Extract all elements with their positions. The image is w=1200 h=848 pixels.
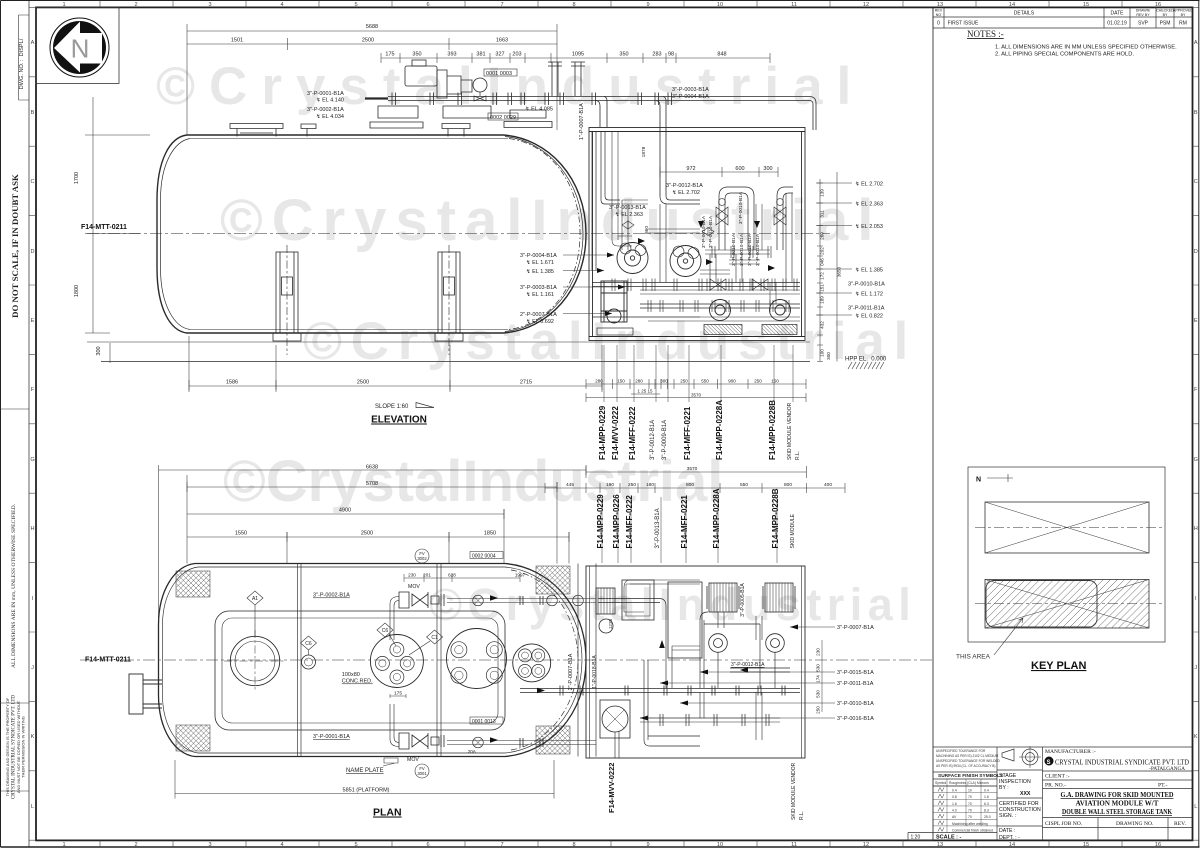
svg-text:3"-P-0012-B1A: 3"-P-0012-B1A xyxy=(666,183,703,189)
svg-text:4.0: 4.0 xyxy=(952,808,957,812)
svg-text:-PATALGANGA: -PATALGANGA xyxy=(1149,766,1185,772)
svg-text:F14-MPP-0226: F14-MPP-0226 xyxy=(612,494,621,549)
svg-text:AS PER IS) 9934 (CL. OF ACCURA: AS PER IS) 9934 (CL. OF ACCURACY B) xyxy=(936,764,995,768)
svg-text:DO NOT SCALE, IF IN DOUBT ASK: DO NOT SCALE, IF IN DOUBT ASK xyxy=(10,174,20,318)
svg-text:SVP: SVP xyxy=(1138,21,1149,27)
svg-text:3"-P-0010-B1A: 3"-P-0010-B1A xyxy=(738,191,744,224)
svg-text:0002 0029: 0002 0029 xyxy=(490,115,516,121)
svg-text:1: 1 xyxy=(62,2,65,8)
svg-text:600: 600 xyxy=(735,166,744,172)
svg-text:550: 550 xyxy=(740,482,748,488)
revision table xyxy=(933,7,1193,840)
svg-text:10: 10 xyxy=(717,2,723,8)
svg-text:15: 15 xyxy=(1083,842,1089,848)
svg-text:3"-P-0004-B1A: 3"-P-0004-B1A xyxy=(520,253,557,259)
svg-text:3"-P-0012-B1A: 3"-P-0012-B1A xyxy=(650,420,656,460)
svg-text:G: G xyxy=(1194,457,1198,463)
svg-text:300: 300 xyxy=(763,166,772,172)
svg-text:1550: 1550 xyxy=(235,531,247,537)
svg-text:1800: 1800 xyxy=(74,285,80,297)
svg-text:400: 400 xyxy=(824,482,832,488)
svg-text:3"-P-0010-B1A: 3"-P-0010-B1A xyxy=(708,215,714,248)
svg-text:L: L xyxy=(31,804,34,810)
svg-text:DATE :: DATE : xyxy=(999,828,1015,834)
svg-text:2500: 2500 xyxy=(361,531,373,537)
extra skid piping detail xyxy=(622,193,792,282)
svg-text:J: J xyxy=(31,665,34,671)
svg-text:N: N xyxy=(976,477,981,484)
svg-text:2: 2 xyxy=(134,842,137,848)
manhole cluster 3 xyxy=(513,644,551,682)
svg-text:203: 203 xyxy=(512,52,521,58)
svg-text:A: A xyxy=(31,40,35,46)
svg-text:SCALE : -: SCALE : - xyxy=(936,835,962,841)
svg-text:3"-P-0010-B1A: 3"-P-0010-B1A xyxy=(739,233,745,266)
svg-text:3"-P-0010-B1A: 3"-P-0010-B1A xyxy=(755,233,761,266)
svg-text:C6: C6 xyxy=(305,641,312,647)
svg-text:327: 327 xyxy=(495,52,504,58)
svg-text:FIRST ISSUE: FIRST ISSUE xyxy=(948,21,979,27)
svg-text:3"-P-0001-B1A: 3"-P-0001-B1A xyxy=(313,734,350,740)
svg-text:16: 16 xyxy=(1155,2,1161,8)
svg-text:230: 230 xyxy=(408,573,416,578)
svg-text:REV BY: REV BY xyxy=(1136,13,1150,17)
svg-text:DWG. NO. : DISPL/: DWG. NO. : DISPL/ xyxy=(19,38,25,89)
svg-text:848: 848 xyxy=(717,52,726,58)
PLAN: tank top view xyxy=(80,564,935,757)
svg-text:70: 70 xyxy=(968,815,972,819)
skid module frame (plan) xyxy=(586,566,805,758)
svg-text:2"-P-0007-B1A: 2"-P-0007-B1A xyxy=(520,312,557,318)
svg-text:1238: 1238 xyxy=(608,618,613,629)
svg-text:↯ EL 0.822: ↯ EL 0.822 xyxy=(855,313,883,320)
svg-text:3"-P-0007-B1A: 3"-P-0007-B1A xyxy=(837,625,874,631)
svg-text:151: 151 xyxy=(820,284,825,292)
svg-text:20A: 20A xyxy=(468,749,477,754)
svg-text:300: 300 xyxy=(826,352,831,360)
svg-text:260: 260 xyxy=(820,232,825,240)
svg-text:↯ EL 2.363: ↯ EL 2.363 xyxy=(855,201,883,208)
svg-text:2"-P-0007-B1A: 2"-P-0007-B1A xyxy=(568,653,574,690)
svg-text:SKID MODULE VENDOR: SKID MODULE VENDOR xyxy=(787,402,793,460)
svg-text:5: 5 xyxy=(354,842,357,848)
svg-text:70: 70 xyxy=(968,795,972,799)
svg-text:2500: 2500 xyxy=(357,380,369,386)
svg-text:250: 250 xyxy=(680,379,688,384)
svg-text:2. ALL PIPING SPECIAL COMPONEN: 2. ALL PIPING SPECIAL COMPONENTS ARE HOL… xyxy=(995,52,1134,58)
manhole cluster C6/C1 xyxy=(370,635,423,688)
svg-text:3"-P-0003-B1A: 3"-P-0003-B1A xyxy=(520,285,557,291)
svg-text:SURFACE FINISH SYMBOLS: SURFACE FINISH SYMBOLS xyxy=(938,773,1004,779)
svg-text:DETAILS: DETAILS xyxy=(1014,11,1035,17)
svg-text:550: 550 xyxy=(701,379,709,384)
svg-text:3"-P-0001-B1A: 3"-P-0001-B1A xyxy=(307,91,344,97)
svg-text:8: 8 xyxy=(572,2,575,8)
svg-text:3"-P-0010-B1A: 3"-P-0010-B1A xyxy=(837,701,874,707)
svg-text:H: H xyxy=(30,526,34,532)
svg-text:F14-MVV-0222: F14-MVV-0222 xyxy=(607,763,616,813)
svg-text:3650: 3650 xyxy=(837,266,842,277)
svg-text:12: 12 xyxy=(863,2,869,8)
svg-text:F: F xyxy=(31,387,35,393)
right side EL labels xyxy=(816,172,852,362)
svg-text:139: 139 xyxy=(820,189,825,197)
svg-text:UNSPECIFIED TOLERANCE FOR WELD: UNSPECIFIED TOLERANCE FOR WELDED xyxy=(936,759,1001,763)
svg-text:5688: 5688 xyxy=(366,24,378,30)
svg-text:4: 4 xyxy=(280,2,283,8)
svg-text:3001: 3001 xyxy=(417,771,427,776)
svg-text:3"-P-0010-B1A: 3"-P-0010-B1A xyxy=(848,282,885,288)
svg-text:ALL DIMENSIONS ARE IN mm, UNLE: ALL DIMENSIONS ARE IN mm, UNLESS OTHERWI… xyxy=(11,503,17,668)
svg-text:1501: 1501 xyxy=(231,38,243,44)
svg-text:201: 201 xyxy=(423,573,431,578)
nozzle C6 small xyxy=(302,655,316,669)
svg-text:XXX: XXX xyxy=(1020,791,1031,797)
svg-text:100x80: 100x80 xyxy=(342,672,360,678)
svg-text:530: 530 xyxy=(816,690,821,698)
svg-text:250: 250 xyxy=(816,706,821,714)
svg-text:1878: 1878 xyxy=(641,146,647,157)
svg-text:F14-MTT-0211: F14-MTT-0211 xyxy=(81,224,127,231)
svg-text:C1: C1 xyxy=(431,635,438,641)
svg-text:CLIENT :-: CLIENT :- xyxy=(1045,774,1070,780)
svg-text:H: H xyxy=(1194,526,1198,532)
svg-text:DEPT. : -: DEPT. : - xyxy=(999,835,1020,841)
svg-text:KEY PLAN: KEY PLAN xyxy=(1031,660,1086,672)
svg-text:©CrystalIndustrial: ©CrystalIndustrial xyxy=(303,312,917,371)
svg-text:APPROVED: APPROVED xyxy=(1173,9,1193,13)
svg-text:283: 283 xyxy=(652,52,661,58)
svg-text:AVIATION MODULE W/T: AVIATION MODULE W/T xyxy=(1076,800,1159,808)
svg-text:9: 9 xyxy=(646,842,649,848)
svg-text:J: J xyxy=(1194,665,1197,671)
svg-text:CHECKED: CHECKED xyxy=(1156,9,1174,13)
svg-text:350: 350 xyxy=(412,52,421,58)
svg-text:ELEVATION: ELEVATION xyxy=(371,415,427,426)
svg-text:E: E xyxy=(1194,318,1198,324)
svg-text:E: E xyxy=(31,318,35,324)
svg-text:D: D xyxy=(30,249,34,255)
manhole cluster 2 xyxy=(447,629,507,689)
svg-text:175: 175 xyxy=(394,691,402,697)
svg-text:RM: RM xyxy=(1179,21,1187,27)
svg-text:972: 972 xyxy=(686,166,695,172)
svg-text:14: 14 xyxy=(1009,842,1015,848)
title block xyxy=(908,747,1193,840)
svg-text:3"-P-0010-B1A: 3"-P-0010-B1A xyxy=(731,233,737,266)
svg-text:16: 16 xyxy=(1155,842,1161,848)
svg-text:F14-MVV-0222: F14-MVV-0222 xyxy=(611,406,620,460)
svg-text:7: 7 xyxy=(500,2,503,8)
vertical dims 1700/1800 xyxy=(85,97,150,363)
svg-text:AV: AV xyxy=(952,815,957,819)
svg-text:Commercial finish obtained: Commercial finish obtained xyxy=(952,828,993,832)
svg-text:13: 13 xyxy=(937,842,943,848)
svg-text:F14-MTT-0211: F14-MTT-0211 xyxy=(85,657,131,664)
svg-text:172: 172 xyxy=(820,272,825,280)
svg-text:3"-P-0011-B1A: 3"-P-0011-B1A xyxy=(848,306,885,312)
svg-text:DATE: DATE xyxy=(1111,11,1125,17)
left nozzle of tank xyxy=(129,674,162,714)
svg-text:1"-P-0007-B1A: 1"-P-0007-B1A xyxy=(579,103,585,140)
svg-text:800: 800 xyxy=(686,482,694,488)
svg-text:G: G xyxy=(30,457,34,463)
svg-text:3: 3 xyxy=(208,842,211,848)
svg-text:REV.: REV. xyxy=(1174,821,1186,827)
svg-text:DOUBLE WALL STEEL STORAGE TANK: DOUBLE WALL STEEL STORAGE TANK xyxy=(1062,808,1172,816)
svg-text:3"-P-0005-B1A: 3"-P-0005-B1A xyxy=(740,583,746,617)
svg-text:3"-P-0010-B1A: 3"-P-0010-B1A xyxy=(747,233,753,266)
svg-text:01.02.19: 01.02.19 xyxy=(1107,21,1127,27)
svg-text:THEIR PERMISSION IN WRITING: THEIR PERMISSION IN WRITING xyxy=(21,716,26,778)
svg-text:280: 280 xyxy=(595,379,603,384)
ELEVATION: storage tank F14-MTT-0211 xyxy=(87,135,830,333)
svg-text:NOTES :-: NOTES :- xyxy=(967,29,1004,39)
saddle supports xyxy=(273,245,463,355)
KEY PLAN xyxy=(968,467,1165,642)
svg-text:↯ EL 4.140: ↯ EL 4.140 xyxy=(316,97,344,104)
svg-text:1.6: 1.6 xyxy=(984,795,989,799)
svg-text:3"-P-0012-B1A: 3"-P-0012-B1A xyxy=(731,662,765,668)
svg-text:PT.-: PT.- xyxy=(1158,783,1168,789)
svg-text:10: 10 xyxy=(717,842,723,848)
svg-text:8: 8 xyxy=(572,842,575,848)
svg-text:1586: 1586 xyxy=(226,380,238,386)
plan top dimension chains xyxy=(159,465,587,799)
svg-text:4: 4 xyxy=(280,842,283,848)
svg-text:10: 10 xyxy=(968,789,972,793)
svg-text:G.A. DRAWING FOR SKID MOUNTED: G.A. DRAWING FOR SKID MOUNTED xyxy=(1061,791,1174,799)
svg-text:C: C xyxy=(30,179,34,185)
svg-text:311: 311 xyxy=(820,210,825,218)
svg-text:©CrystalIndustrial: ©CrystalIndustrial xyxy=(429,579,916,630)
svg-text:F14-MFF-0221: F14-MFF-0221 xyxy=(680,495,689,549)
svg-text:11: 11 xyxy=(791,842,797,848)
svg-text:12: 12 xyxy=(863,842,869,848)
svg-text:THIS DRAWING AND DESIGN IS THE: THIS DRAWING AND DESIGN IS THE PROPERTY … xyxy=(5,697,10,796)
svg-text:↯ EL 2.702: ↯ EL 2.702 xyxy=(672,189,700,196)
vertical equipment tags (plan) xyxy=(596,488,780,548)
svg-text:PR. NO.-: PR. NO.- xyxy=(1045,783,1066,789)
svg-text:3570: 3570 xyxy=(691,393,702,398)
svg-text:L: L xyxy=(1194,804,1197,810)
svg-text:B: B xyxy=(1194,110,1198,116)
svg-text:©CrystalIndustrial: ©CrystalIndustrial xyxy=(156,57,865,116)
svg-text:1:20: 1:20 xyxy=(911,835,921,841)
svg-text:445: 445 xyxy=(566,482,574,488)
svg-text:F14-MFF-0221: F14-MFF-0221 xyxy=(683,406,692,460)
svg-text:530: 530 xyxy=(816,664,821,672)
svg-text:150: 150 xyxy=(771,379,779,384)
svg-text:Roughness (CLA) Microns: Roughness (CLA) Microns xyxy=(949,781,989,785)
svg-text:↯ EL 1.671: ↯ EL 1.671 xyxy=(526,259,554,266)
manhole A1 xyxy=(224,630,286,692)
svg-text:150: 150 xyxy=(617,379,625,384)
svg-text:70: 70 xyxy=(968,808,972,812)
svg-text:F14-MPP-0228B: F14-MPP-0228B xyxy=(771,488,780,548)
svg-text:0002 0004: 0002 0004 xyxy=(472,554,496,560)
svg-text:350: 350 xyxy=(619,52,628,58)
svg-text:25.0: 25.0 xyxy=(984,815,991,819)
svg-text:381: 381 xyxy=(476,52,485,58)
svg-text:393: 393 xyxy=(447,52,456,58)
svg-text:180: 180 xyxy=(646,482,654,488)
svg-text:THIS AREA: THIS AREA xyxy=(956,654,991,661)
svg-text:F14-MPP-0228B: F14-MPP-0228B xyxy=(768,400,777,460)
svg-text:0001 0003: 0001 0003 xyxy=(486,71,512,77)
svg-text:1"-P-0018-B1A: 1"-P-0018-B1A xyxy=(592,655,598,689)
svg-text:300: 300 xyxy=(96,346,102,355)
svg-text:628: 628 xyxy=(448,573,456,578)
svg-text:↯ EL 2.702: ↯ EL 2.702 xyxy=(855,181,883,188)
svg-text:PLAN: PLAN xyxy=(373,807,402,819)
svg-text:0.4: 0.4 xyxy=(984,789,989,793)
svg-text:A: A xyxy=(1194,40,1198,46)
top piping with pump unit xyxy=(230,60,816,196)
svg-text:6638: 6638 xyxy=(366,465,378,471)
svg-text:BY: BY xyxy=(1163,13,1168,17)
svg-text:F14-MPP-0228A: F14-MPP-0228A xyxy=(715,400,724,460)
svg-text:14: 14 xyxy=(1009,2,1015,8)
svg-text:800: 800 xyxy=(784,482,792,488)
svg-text:↯ EL 4.085: ↯ EL 4.085 xyxy=(525,106,553,113)
svg-text:5708: 5708 xyxy=(366,481,378,487)
svg-text:250: 250 xyxy=(628,482,636,488)
svg-text:BY: BY xyxy=(1181,13,1186,17)
svg-text:MOV: MOV xyxy=(407,757,419,763)
plan skid piping xyxy=(520,599,800,759)
svg-text:B: B xyxy=(31,110,35,116)
svg-text:SKID MODULE: SKID MODULE xyxy=(790,513,796,548)
svg-text:DRAWING NO.: DRAWING NO. xyxy=(1116,821,1154,827)
svg-text:N: N xyxy=(71,34,90,64)
north arrow logo xyxy=(36,7,119,83)
svg-text:3"-P-0009-B1A: 3"-P-0009-B1A xyxy=(662,420,668,460)
svg-text:4900: 4900 xyxy=(339,508,351,514)
svg-text:8.3: 8.3 xyxy=(984,808,989,812)
svg-text:189: 189 xyxy=(820,296,825,304)
svg-text:1850: 1850 xyxy=(484,531,496,537)
svg-text:©CrystalIndustrial: ©CrystalIndustrial xyxy=(223,449,723,514)
svg-text:K: K xyxy=(31,734,35,740)
svg-text:F14-MPP-0229: F14-MPP-0229 xyxy=(596,494,605,549)
svg-text:HPP EL. 0.000: HPP EL. 0.000 xyxy=(845,357,887,363)
svg-text:↯ EL 1.172: ↯ EL 1.172 xyxy=(855,291,883,298)
pumps (elevation) xyxy=(601,243,791,324)
svg-text:3"-P-0002-B1A: 3"-P-0002-B1A xyxy=(307,107,344,113)
svg-text:5851 (PLATFORM): 5851 (PLATFORM) xyxy=(343,788,390,794)
svg-text:3: 3 xyxy=(208,2,211,8)
svg-text:UNSPECIFIED TOLERANCE FOR: UNSPECIFIED TOLERANCE FOR xyxy=(936,749,986,753)
svg-text:280: 280 xyxy=(635,379,643,384)
svg-text:↯ EL 1.385: ↯ EL 1.385 xyxy=(526,268,554,275)
skid module frame (elevation) xyxy=(589,128,805,341)
svg-text:860: 860 xyxy=(644,226,650,234)
svg-text:MOV: MOV xyxy=(408,584,420,590)
svg-text:300: 300 xyxy=(660,379,668,384)
svg-text:SLOPE 1:60: SLOPE 1:60 xyxy=(375,404,409,410)
svg-text:0001 0013: 0001 0013 xyxy=(472,719,496,725)
svg-text:D: D xyxy=(1194,249,1198,255)
svg-text:6.3: 6.3 xyxy=(984,802,989,806)
svg-text:2: 2 xyxy=(134,2,137,8)
svg-text:250: 250 xyxy=(754,379,762,384)
svg-text:NO: NO xyxy=(936,13,942,17)
svg-text:NAME PLATE: NAME PLATE xyxy=(346,768,384,774)
svg-text:F14-MPP-0228A: F14-MPP-0228A xyxy=(712,488,721,548)
skid interior piping (elevation) xyxy=(592,132,800,318)
svg-text:A1: A1 xyxy=(252,596,258,602)
top dimension chains xyxy=(187,24,770,135)
svg-text:70: 70 xyxy=(968,802,972,806)
svg-text:2715: 2715 xyxy=(520,380,532,386)
svg-text:1.6: 1.6 xyxy=(952,802,957,806)
svg-text:3570: 3570 xyxy=(687,466,698,472)
svg-text:S: S xyxy=(1047,760,1051,766)
svg-text:1700: 1700 xyxy=(74,172,80,184)
svg-text:0.8: 0.8 xyxy=(952,795,957,799)
svg-text:MANUFACTURER :-: MANUFACTURER :- xyxy=(1045,749,1096,755)
svg-text:7: 7 xyxy=(500,842,503,848)
svg-text:CISPL JOB NO.: CISPL JOB NO. xyxy=(1045,821,1083,827)
svg-text:1 25 15: 1 25 15 xyxy=(637,389,653,394)
svg-text:F14-MFF-0222: F14-MFF-0222 xyxy=(628,406,637,460)
bottom dimension chain of elevation xyxy=(189,336,806,402)
vertical equipment tags below elevation xyxy=(598,400,777,460)
svg-text:174: 174 xyxy=(816,675,821,683)
svg-text:3002: 3002 xyxy=(417,556,427,561)
svg-text:F14-MPP-0229: F14-MPP-0229 xyxy=(598,405,607,460)
svg-text:0: 0 xyxy=(937,21,940,27)
svg-text:SKID MODULE VENDOR: SKID MODULE VENDOR xyxy=(791,762,797,820)
svg-text:Machining after welding: Machining after welding xyxy=(952,822,988,826)
svg-text:PSM: PSM xyxy=(1160,21,1171,27)
svg-text:K: K xyxy=(1194,734,1198,740)
svg-text:190: 190 xyxy=(606,482,614,488)
svg-text:↯ EL 1.385: ↯ EL 1.385 xyxy=(855,267,883,274)
right side pipe labels (plan) xyxy=(837,625,874,722)
svg-text:3"-P-0010-B1A: 3"-P-0010-B1A xyxy=(701,215,707,248)
svg-text:100: 100 xyxy=(820,349,825,357)
svg-text:6: 6 xyxy=(426,2,429,8)
svg-text:Symbol: Symbol xyxy=(935,781,947,785)
svg-text:0.4: 0.4 xyxy=(952,789,957,793)
svg-text:MACHINING AS PER IS) 2102 CL M: MACHINING AS PER IS) 2102 CL MEDIUM xyxy=(936,754,999,758)
svg-text:↯ EL 1.161: ↯ EL 1.161 xyxy=(526,291,554,298)
svg-text:9: 9 xyxy=(646,2,649,8)
svg-text:11: 11 xyxy=(791,2,797,8)
svg-text:1997: 1997 xyxy=(515,573,526,578)
watermark xyxy=(156,57,917,630)
svg-text:C6: C6 xyxy=(382,628,389,634)
svg-text:DRAWN/: DRAWN/ xyxy=(1136,9,1150,13)
svg-text:3"-P-0016-B1A: 3"-P-0016-B1A xyxy=(837,716,874,722)
svg-text:15: 15 xyxy=(1083,2,1089,8)
MOV valve assemblies (plan) xyxy=(390,592,596,749)
svg-text:2500: 2500 xyxy=(362,38,374,44)
svg-text:5: 5 xyxy=(354,2,357,8)
svg-text:900: 900 xyxy=(728,379,736,384)
ground line and HPP EL 0.000 xyxy=(87,342,810,362)
svg-text:F: F xyxy=(1194,387,1198,393)
pump base plates xyxy=(597,325,797,336)
svg-text:↯ EL 2.053: ↯ EL 2.053 xyxy=(855,223,883,230)
svg-text:1: 1 xyxy=(62,842,65,848)
motors (plan) xyxy=(596,583,795,614)
svg-text:3"-P-0015-B1A: 3"-P-0015-B1A xyxy=(837,670,874,676)
svg-text:REV: REV xyxy=(935,9,943,13)
svg-text:3"-P-0003-B1A: 3"-P-0003-B1A xyxy=(672,87,709,93)
